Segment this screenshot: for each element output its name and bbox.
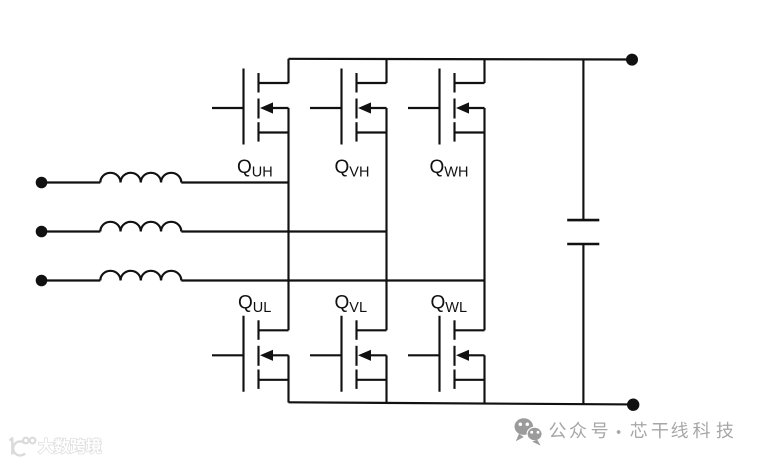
svg-text:QVL: QVL [335, 293, 368, 317]
svg-text:QWL: QWL [431, 293, 468, 317]
svg-text:QUH: QUH [237, 157, 273, 181]
svg-text:QVH: QVH [335, 157, 370, 181]
svg-text:QUL: QUL [238, 293, 271, 317]
svg-text:QWH: QWH [430, 157, 469, 181]
